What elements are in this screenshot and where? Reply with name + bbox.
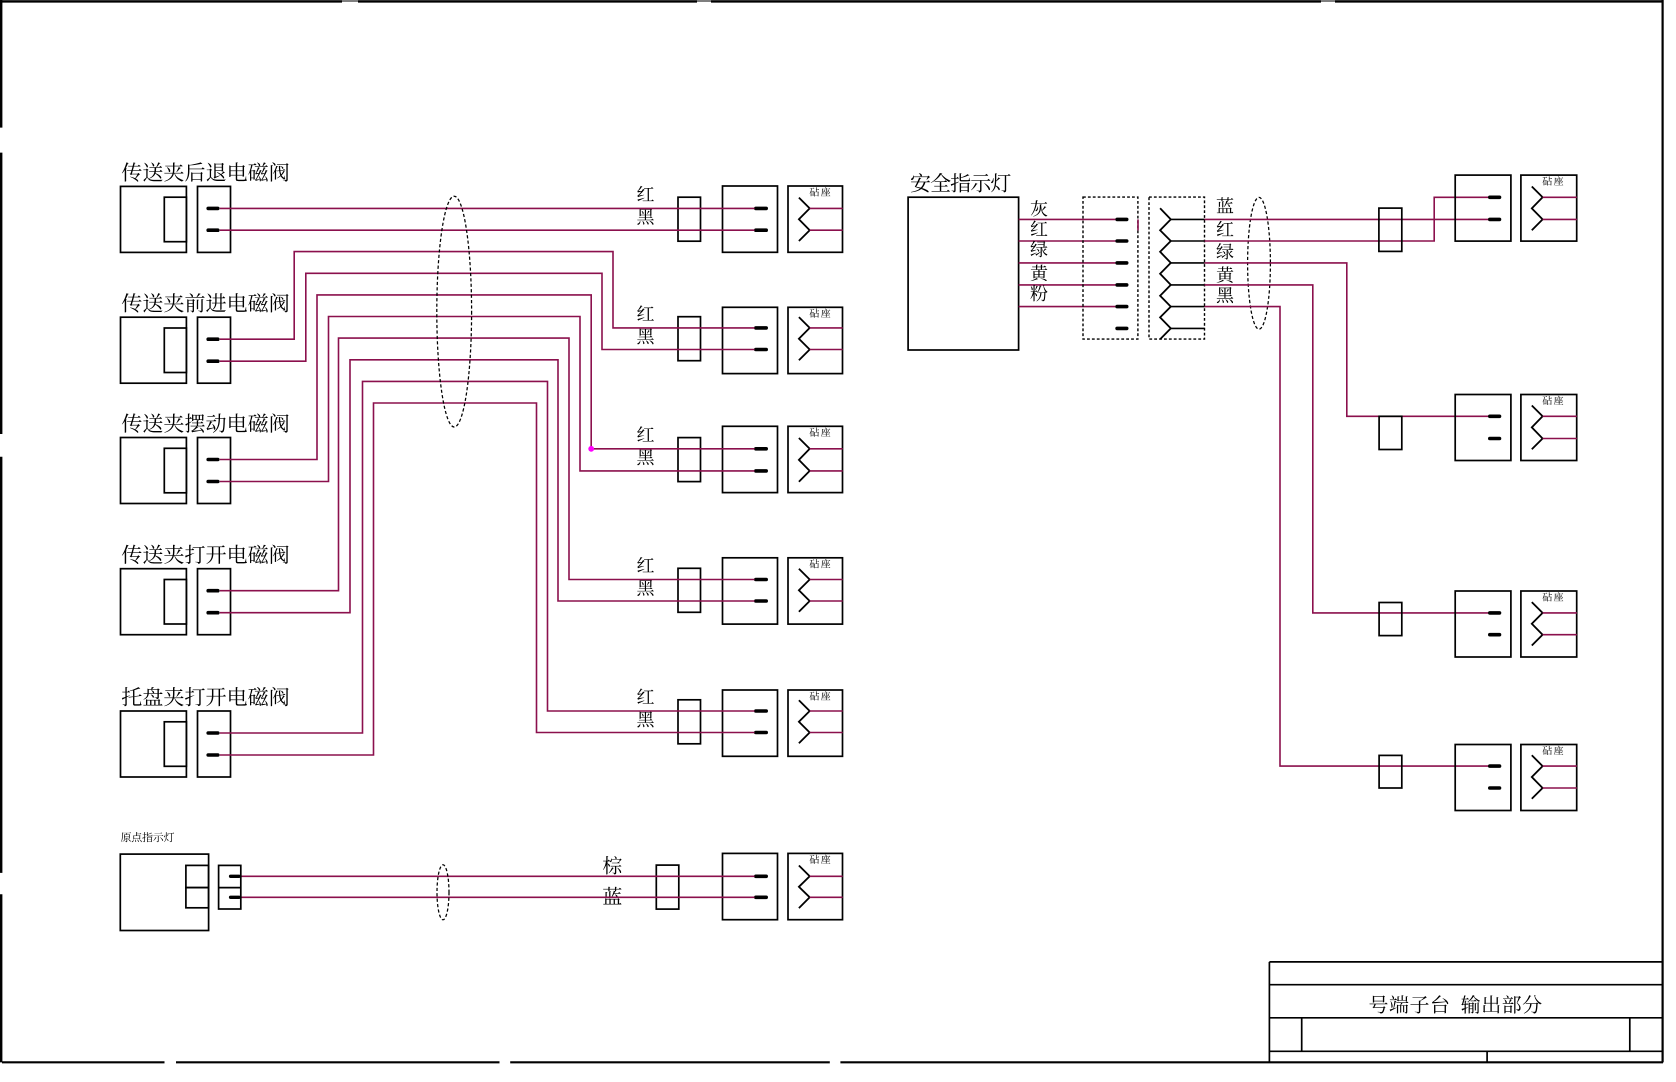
label lead color 红 (1031, 221, 1048, 236)
terminal row 1 pin 2 (756, 228, 766, 232)
safety indicator lamp body (908, 197, 1019, 350)
lamp pin 1 (231, 875, 240, 878)
terminal row 6 ferrule (656, 865, 679, 909)
right group 3 pin 2 (1490, 633, 1500, 637)
cable bundle ellipse right (1248, 197, 1271, 329)
valve V1 pin 1 (208, 207, 218, 211)
terminal row 3 pin 2 (756, 469, 766, 473)
wire valve V4 pin2 to row4 black (220, 360, 755, 613)
wire valve V1 pin2 to terminal row1 black (220, 229, 755, 231)
right group 1 pin 1 (1490, 196, 1500, 200)
anvil socket 砧座 right group 1 box (1521, 175, 1577, 241)
terminal row 5 pin 1 (756, 709, 766, 713)
wire safety lamp lead 5 (粉) (1019, 306, 1116, 308)
anvil socket row 2 contact chevrons (799, 317, 810, 360)
terminal row 1 pin 1 (756, 207, 766, 211)
anvil socket row 4 wire stubs (810, 579, 843, 581)
label origin indicator lamp 原点指示灯 (121, 832, 174, 842)
terminal row 3 connector box (723, 426, 778, 492)
right group 3 connector box (1455, 591, 1511, 657)
right group 2 pin 1 (1490, 414, 1500, 418)
valve V2 pin 2 (208, 359, 218, 363)
wire safety lamp lead 2 (红) (1019, 240, 1116, 242)
anvil socket right group 2 label 砧座 (1542, 396, 1563, 405)
sheet border frame bottom (2, 1061, 165, 1063)
wire valve V2 pin2 to row2 black (220, 273, 755, 361)
wire color label row 6 棕 (603, 856, 622, 875)
right group 4 pin 2 (1490, 786, 1500, 790)
terminal strip dashed box (pins) (1083, 197, 1138, 339)
valve V2 pin 1 (208, 337, 218, 341)
anvil socket 砧座 right group 4 box (1521, 745, 1577, 811)
terminal row 4 pin 2 (756, 599, 766, 603)
wire valve V2 pin1 to row2 red (220, 252, 755, 340)
anvil socket right group 1 label 砧座 (1542, 176, 1563, 185)
wire color label row 6 蓝 (603, 887, 621, 905)
wire valve V3 pin1 to row3 red (220, 295, 755, 460)
terminal row 2 pin 1 (756, 326, 766, 330)
wire color label row 1 黑 (637, 209, 654, 225)
right group 4 connector box (1455, 745, 1511, 811)
anvil socket right group 2 wire stubs (1543, 415, 1577, 417)
solenoid valve V5 body (121, 711, 187, 777)
cable bundle ellipse bottom (437, 865, 449, 920)
anvil socket row 3 contact chevrons (799, 438, 810, 482)
plug strip contact lead 3 (1171, 262, 1205, 264)
valve V3 pin 2 (208, 480, 218, 484)
terminal strip pin 4 (1117, 283, 1127, 287)
terminal row 5 connector box (723, 690, 778, 756)
wire color label row 2 黑 (637, 328, 654, 344)
terminal row 3 pin 1 (756, 447, 766, 451)
anvil socket row 1 wire stubs (810, 207, 843, 209)
label lead color 灰 (1031, 200, 1048, 216)
plug strip dashed box (chevrons) (1149, 197, 1205, 339)
wire color label row 5 红 (637, 688, 654, 703)
wire 黄 to socket group3 pin1 (1205, 285, 1489, 613)
plug strip contact lead 4 (1171, 284, 1205, 286)
valve V5 connector (198, 711, 231, 777)
label cable color 绿 (1217, 243, 1234, 259)
anvil socket row 6 label 砧座 (810, 855, 831, 864)
wire lamp pin1 to row6 brown (241, 875, 755, 877)
plug strip contact lead 1 (1171, 218, 1205, 220)
wire 红 to socket group1 pin1 (1205, 197, 1489, 241)
solenoid valve V2 body (121, 317, 187, 383)
anvil socket row 1 contact chevrons (799, 198, 810, 241)
valve V2 connector (198, 317, 231, 383)
wire 黑 to socket group4 pin1 (1205, 307, 1489, 766)
anvil socket row 3 label 砧座 (810, 428, 831, 437)
right group 4 pin 1 (1490, 764, 1500, 768)
terminal row 6 pin 2 (756, 895, 766, 899)
terminal row 3 ferrule (678, 438, 701, 482)
plug strip chevron contacts (1160, 208, 1171, 339)
right group 4 ferrule (1379, 755, 1402, 788)
wire valve V4 pin1 to row4 red (220, 338, 755, 591)
wire color label row 2 红 (637, 305, 654, 320)
wire valve V1 pin1 to terminal row1 red (220, 207, 755, 209)
label cable color 黄 (1217, 266, 1234, 282)
right group 1 ferrule (1379, 208, 1402, 251)
anvil socket right group 1 chevrons (1532, 187, 1543, 231)
terminal row 6 connector box (723, 853, 778, 919)
wire lamp pin2 to row6 blue (241, 896, 755, 898)
title block frame (1268, 962, 1270, 1063)
label lead color 粉 (1030, 285, 1047, 302)
label lead color 绿 (1031, 241, 1048, 257)
terminal row 5 ferrule (678, 700, 701, 744)
anvil socket 砧座 row 3 box (788, 426, 843, 492)
right group 3 pin 1 (1490, 611, 1500, 615)
label solenoid valve V5 托盘夹打开电磁阀 (122, 687, 289, 706)
wire color label row 1 红 (637, 186, 654, 201)
anvil socket row 4 contact chevrons (799, 569, 810, 612)
right group 3 ferrule (1379, 603, 1402, 636)
right group 2 connector box (1455, 395, 1511, 461)
terminal strip pin 5 (1117, 305, 1127, 309)
right group 2 pin 2 (1490, 437, 1500, 441)
label solenoid valve V1 传送夹后退电磁阀 (122, 162, 289, 181)
valve V3 pin 1 (208, 458, 218, 462)
terminal strip pin 1 (1117, 218, 1127, 222)
wire color label row 4 黑 (637, 580, 654, 596)
label solenoid valve V3 传送夹摆动电磁阀 (122, 413, 289, 433)
wire safety lamp lead 3 (绿) (1019, 262, 1116, 264)
junction dot on row3 red wire (588, 446, 594, 452)
wire stub at terminal strip edge (1137, 219, 1139, 230)
anvil socket right group 3 label 砧座 (1542, 592, 1563, 601)
terminal row 6 pin 1 (756, 874, 766, 878)
anvil socket row 5 wire stubs (810, 710, 843, 712)
plug strip contact lead 2 (1171, 240, 1205, 242)
anvil socket row 6 wire stubs (810, 875, 843, 877)
anvil socket 砧座 right group 2 box (1521, 395, 1577, 461)
terminal row 2 pin 2 (756, 348, 766, 352)
anvil socket right group 3 chevrons (1532, 602, 1543, 645)
origin indicator lamp body (120, 854, 208, 930)
solenoid valve V1 body (121, 186, 187, 252)
terminal strip pin 6 (1117, 327, 1127, 331)
valve V3 connector (198, 438, 231, 504)
terminal row 4 ferrule (678, 568, 701, 612)
terminal row 2 connector box (723, 307, 778, 373)
anvil socket 砧座 row 6 box (788, 853, 843, 919)
anvil socket row 2 label 砧座 (810, 309, 831, 318)
anvil socket row 4 label 砧座 (810, 559, 831, 568)
terminal row 1 ferrule (678, 197, 701, 241)
sheet border frame right (1661, 0, 1663, 1062)
label cable color 红 (1217, 221, 1234, 236)
cable bundle ellipse left (437, 196, 472, 427)
label cable color 蓝 (1217, 197, 1234, 213)
anvil socket 砧座 row 1 box (788, 186, 843, 252)
terminal strip pin 3 (1117, 261, 1127, 265)
wire 绿 to socket group2 pin1 (1205, 263, 1489, 416)
terminal row 4 connector box (723, 558, 778, 624)
terminal row 4 pin 1 (756, 578, 766, 582)
wire color label row 3 红 (637, 426, 654, 441)
anvil socket right group 2 chevrons (1532, 406, 1543, 450)
lamp pin 2 (231, 896, 240, 899)
valve V4 pin 1 (208, 589, 218, 593)
anvil socket right group 1 wire stubs (1543, 196, 1577, 198)
anvil socket 砧座 row 4 box (788, 558, 843, 624)
wire valve V5 pin2 to row5 black (220, 403, 755, 755)
wire safety lamp lead 4 (黄) (1019, 284, 1116, 286)
anvil socket row 1 label 砧座 (810, 187, 831, 196)
wire 蓝 to socket group1 pin2 (1205, 218, 1489, 220)
plug strip contact lead 6 (1171, 327, 1205, 329)
anvil socket 砧座 row 5 box (788, 690, 843, 756)
anvil socket row 5 label 砧座 (810, 691, 831, 700)
valve V1 connector (198, 186, 231, 252)
label solenoid valve V2 传送夹前进电磁阀 (122, 293, 289, 312)
wire valve V5 pin1 to row5 red (220, 381, 755, 733)
valve V4 pin 2 (208, 611, 218, 615)
right group 1 connector box (1455, 175, 1511, 241)
anvil socket row 2 wire stubs (810, 327, 843, 329)
anvil socket right group 4 label 砧座 (1542, 746, 1563, 755)
label lead color 黄 (1031, 265, 1048, 281)
sheet border frame top hairline (0, 0, 1663, 2)
anvil socket 砧座 right group 3 box (1521, 591, 1577, 657)
wire color label row 3 黑 (637, 449, 654, 465)
label cable color 黑 (1217, 287, 1234, 303)
right group 1 pin 2 (1490, 218, 1500, 222)
sheet border frame top (0, 0, 342, 2)
terminal row 5 pin 2 (756, 731, 766, 735)
anvil socket row 6 contact chevrons (799, 866, 810, 909)
anvil socket row 3 wire stubs (810, 448, 843, 450)
plug strip contact lead 5 (1171, 306, 1205, 308)
anvil socket 砧座 row 2 box (788, 307, 843, 373)
valve V5 pin 1 (208, 731, 218, 735)
title text 号端子台 输出部分 (1369, 995, 1541, 1014)
label safety indicator lamp 安全指示灯 (911, 173, 1011, 192)
sheet border frame left (0, 0, 2, 128)
anvil socket right group 4 chevrons (1532, 755, 1543, 799)
solenoid valve V3 body (121, 438, 187, 504)
anvil socket row 5 contact chevrons (799, 700, 810, 743)
solenoid valve V4 body (121, 569, 187, 635)
right group 2 ferrule (1379, 416, 1402, 449)
valve V5 pin 2 (208, 753, 218, 757)
terminal row 2 ferrule (678, 317, 701, 361)
wire color label row 4 红 (637, 557, 654, 572)
lamp connector (219, 865, 241, 909)
terminal row 1 connector box (723, 186, 778, 252)
anvil socket right group 4 wire stubs (1543, 765, 1577, 767)
anvil socket right group 3 wire stubs (1543, 612, 1577, 614)
wire safety lamp lead 1 (灰) (1019, 218, 1116, 220)
terminal strip pin 2 (1117, 239, 1127, 243)
label solenoid valve V4 传送夹打开电磁阀 (122, 545, 289, 564)
valve V4 connector (198, 569, 231, 635)
wire valve V3 pin2 to row3 black (220, 317, 755, 482)
valve V1 pin 2 (208, 228, 218, 232)
wire color label row 5 黑 (637, 711, 654, 727)
